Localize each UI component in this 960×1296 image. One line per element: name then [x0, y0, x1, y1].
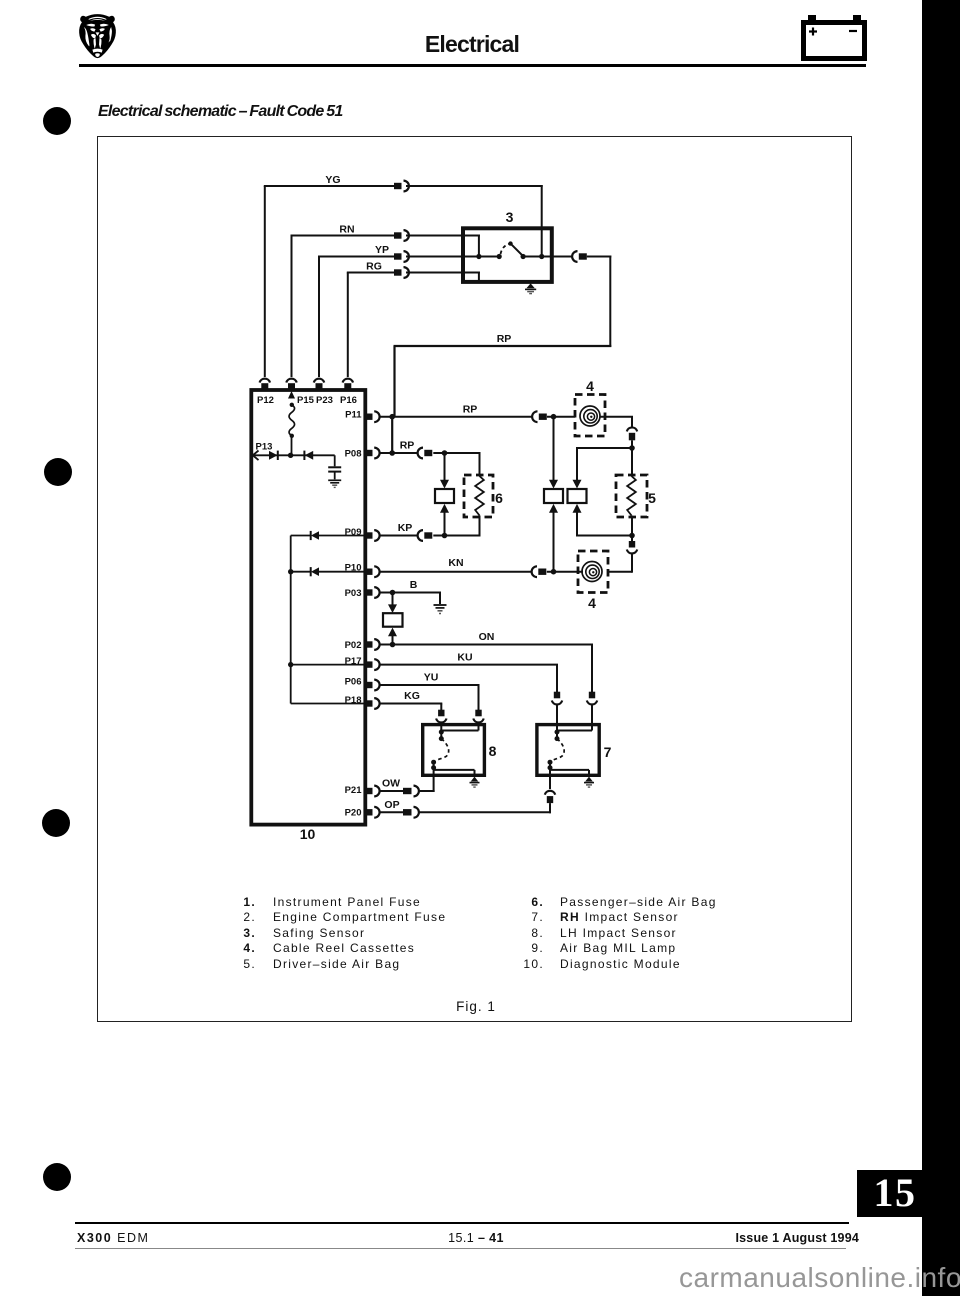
ground under sensor 7	[584, 777, 594, 788]
pin P16 top	[343, 379, 353, 390]
svg-text:P02: P02	[345, 640, 362, 651]
wire to node	[631, 440, 633, 449]
driver airbag squib A arrow	[549, 480, 558, 489]
node passenger top	[442, 450, 448, 456]
wire P17 KU row	[380, 664, 558, 666]
cable reel cassette 4 upper	[575, 395, 605, 437]
safing sensor box 3	[463, 228, 552, 282]
svg-text:P20: P20	[345, 808, 362, 819]
ground drop B	[439, 593, 441, 605]
diode D4 on P10 line	[311, 567, 319, 576]
svg-text:P06: P06	[345, 677, 362, 688]
RH impact sensor 7	[537, 725, 599, 776]
wire ON connector to sensor 7	[591, 705, 593, 725]
resistor R6 feed	[479, 453, 481, 478]
driver airbag squib A	[544, 489, 563, 503]
wire RG vertical to P16	[347, 273, 349, 378]
wire into cassette 4 lower	[603, 571, 632, 573]
wire P18 KG row	[380, 703, 443, 705]
pin P23 top	[314, 379, 324, 390]
diode D1	[269, 451, 278, 460]
wire OP to sensor 7	[419, 811, 551, 813]
wire YP horizontal	[318, 256, 394, 258]
resistor R6 lower wire	[479, 516, 481, 537]
connector below sensor 7	[545, 791, 555, 803]
margin bullet 4	[43, 1163, 71, 1191]
resistor R6	[464, 475, 493, 517]
wire connector to OP row	[549, 803, 551, 813]
sensor 7 bottom lead	[549, 775, 551, 789]
svg-text:KG: KG	[404, 690, 420, 702]
ground B	[434, 605, 447, 614]
connector on YP wire	[394, 251, 409, 262]
svg-text:OP: OP	[384, 799, 399, 811]
svg-text:YG: YG	[325, 174, 340, 186]
wire RP top horizontal	[394, 345, 612, 347]
KU drop to sensor 7	[556, 665, 558, 692]
connector on P11 wire	[532, 411, 547, 422]
node P02	[390, 642, 396, 648]
arrow up under P15	[288, 391, 295, 399]
wire to RP corner	[587, 256, 612, 258]
node P03	[390, 590, 396, 596]
wire KU connector to sensor 7	[556, 705, 558, 725]
MIL lamp arrow down	[388, 604, 397, 613]
margin bullet 2	[44, 458, 72, 486]
section heading	[98, 103, 343, 121]
figure frame	[97, 136, 852, 1022]
connector on RG wire	[394, 267, 409, 278]
pin P11	[366, 411, 380, 422]
svg-text:ON: ON	[479, 631, 495, 643]
legend	[0, 0, 960, 1]
footer rule	[75, 1222, 849, 1224]
vertical connector below node	[627, 541, 637, 553]
svg-text:P11: P11	[345, 410, 362, 421]
connector on OW wire	[403, 786, 419, 797]
svg-text:5: 5	[648, 490, 656, 506]
diagnostic module box 10	[251, 390, 365, 825]
pin P21	[366, 786, 380, 797]
wire RG horizontal	[347, 272, 394, 274]
resistor R5	[616, 475, 647, 517]
wire KP to node	[433, 535, 444, 537]
pin P10	[366, 566, 380, 577]
node before cassette	[551, 414, 557, 420]
diode D2	[304, 451, 313, 460]
svg-text:P09: P09	[345, 527, 362, 538]
watermark	[679, 1262, 960, 1294]
connector on KP wire	[418, 530, 433, 541]
svg-text:P23: P23	[316, 395, 333, 406]
sensor 8 internals	[431, 725, 478, 776]
svg-text:RN: RN	[339, 224, 354, 236]
RP link vertical	[391, 417, 393, 453]
header rule	[79, 64, 866, 67]
svg-text:P08: P08	[345, 449, 362, 460]
ground under box 3	[525, 283, 536, 293]
wire RN horizontal	[291, 235, 395, 237]
connector above sensor 8 left	[436, 710, 446, 723]
margin bullet 3	[42, 809, 70, 837]
MIL lamp arrow up	[388, 628, 397, 637]
svg-text:KU: KU	[457, 651, 472, 663]
pin P03	[366, 587, 380, 598]
svg-text:P18: P18	[345, 695, 362, 706]
connector on P08 wire	[418, 448, 433, 459]
node KN	[551, 569, 557, 575]
svg-text:4: 4	[588, 595, 596, 611]
svg-text:4: 4	[586, 378, 594, 394]
wire YG horizontal	[264, 185, 394, 187]
passenger airbag squib	[435, 489, 454, 503]
driver airbag squib B	[568, 489, 587, 503]
pin P06	[366, 680, 380, 691]
svg-text:KP: KP	[398, 522, 413, 534]
squib B lower wire	[576, 513, 578, 537]
wire down to cassette level	[631, 536, 633, 542]
svg-text:YU: YU	[424, 672, 439, 684]
wire RP right vertical	[609, 256, 611, 348]
svg-text:P03: P03	[345, 588, 362, 599]
pin P02	[366, 639, 380, 650]
svg-text:P17: P17	[345, 656, 362, 667]
switch blade	[511, 244, 523, 256]
squib branch drops	[576, 448, 578, 480]
node right airbag top	[629, 445, 635, 451]
coil inside module	[289, 403, 295, 456]
svg-text:YP: YP	[375, 244, 389, 256]
pin P17	[366, 659, 380, 670]
sensor 8 bottom lead	[433, 775, 435, 792]
pin P18	[366, 698, 380, 709]
wire RN jog inside box 3	[478, 235, 480, 257]
pin P20	[366, 807, 380, 818]
figure caption	[400, 999, 552, 1014]
wire P02 ON row	[380, 644, 593, 646]
pin P08	[366, 448, 380, 459]
capacitor C1	[328, 455, 341, 479]
wire P21 OW row	[380, 790, 404, 792]
wire P10 KN row	[380, 571, 531, 573]
diode D3 on P09 line	[311, 531, 319, 540]
bottom link driver airbag	[577, 535, 632, 537]
P13 internal rail	[251, 454, 334, 456]
jaguar growler logo	[78, 14, 117, 59]
connector above sensor 8 right	[473, 710, 483, 723]
corner drop to connector	[631, 417, 633, 427]
svg-text:RP: RP	[400, 440, 415, 452]
footer thin rule	[75, 1248, 846, 1249]
svg-text:B: B	[410, 579, 418, 591]
margin bullet 1	[43, 107, 71, 135]
ON drop to sensor 7	[591, 645, 593, 693]
wire to passenger squib	[433, 452, 480, 454]
svg-text:RP: RP	[497, 333, 512, 345]
driver airbag squib A arrow up	[549, 504, 558, 513]
svg-text:KN: KN	[448, 557, 463, 569]
wire P06 YU row	[380, 684, 480, 686]
svg-text:P16: P16	[340, 395, 357, 406]
battery icon	[796, 10, 872, 66]
wire YG drop into safing sensor	[541, 185, 543, 257]
right side black strip	[922, 0, 960, 1296]
svg-text:RG: RG	[366, 261, 382, 273]
driver airbag squib B arrow	[573, 480, 582, 489]
KG drop to sensor 8	[440, 704, 442, 711]
wire cassette to corner	[600, 416, 633, 418]
pin P12 top	[260, 379, 270, 390]
node at P10 rail	[288, 569, 293, 574]
passenger airbag squib arrow	[440, 480, 449, 489]
svg-text:P21: P21	[345, 785, 363, 796]
vertical connector below corner	[627, 427, 637, 440]
wire P20 OP row	[380, 811, 404, 813]
svg-text:3: 3	[506, 209, 514, 225]
wire P03 B row	[380, 592, 441, 594]
air bag MIL lamp 9	[383, 613, 403, 627]
svg-text:6: 6	[495, 490, 503, 506]
connector on KN wire	[532, 566, 547, 577]
passenger airbag squib arrow up	[440, 504, 449, 513]
pin P15 top	[286, 379, 296, 390]
ground under sensor 8	[470, 777, 480, 788]
connector right of box 3	[572, 251, 587, 262]
wire RN vertical to P15	[291, 236, 293, 378]
ground under capacitor	[328, 480, 341, 487]
footer right	[650, 1231, 859, 1245]
resistor R5 feed	[631, 447, 633, 478]
resistor R5 lower wire	[631, 516, 633, 537]
switch contacts in box 3	[476, 241, 544, 259]
passenger squib lower wire	[444, 513, 446, 537]
YU drop to sensor 8	[478, 685, 480, 710]
squib A lower wire	[553, 513, 555, 572]
LH impact sensor 8	[423, 725, 485, 776]
svg-text:OW: OW	[382, 778, 400, 790]
wire P11 RP row	[380, 416, 532, 418]
wire across to squib branch	[576, 447, 632, 449]
wire P08 RP row	[380, 452, 417, 454]
wire YP vertical to P23	[318, 257, 320, 378]
module internal bus	[291, 536, 366, 704]
passenger squib feed	[444, 453, 446, 480]
driver airbag squib B arrow up	[573, 504, 582, 513]
MIL lamp lower wire	[392, 636, 394, 645]
connector on RN wire	[394, 230, 409, 241]
svg-text:10: 10	[300, 826, 316, 842]
bottom link passenger airbag	[445, 535, 481, 537]
wire from box 3 to connector	[552, 256, 572, 258]
node driver airbag bottom	[629, 533, 635, 539]
wire OW to sensor 8	[419, 790, 435, 792]
svg-text:P12: P12	[257, 395, 274, 406]
connector on OP wire	[403, 807, 419, 818]
connector on YG wire	[394, 181, 409, 192]
footer center	[380, 1231, 572, 1245]
node at P17 rail	[288, 662, 293, 667]
svg-text:P15: P15	[297, 395, 315, 406]
svg-text:P10: P10	[345, 563, 362, 574]
arrowhead at left edge	[253, 451, 259, 461]
cable reel cassette 4 lower	[578, 551, 608, 593]
wire KN to cassette	[547, 571, 583, 573]
header title	[0, 31, 944, 58]
node P11/RP	[389, 414, 395, 420]
chapter tab 15	[857, 1170, 923, 1217]
svg-text:RP: RP	[463, 404, 478, 416]
pin P09	[366, 530, 380, 541]
switch blade dashed arc	[501, 244, 511, 254]
svg-text:8: 8	[489, 743, 497, 759]
svg-text:7: 7	[604, 744, 612, 760]
wire RP drop to P11	[393, 346, 395, 417]
connector above sensor 7 right	[587, 692, 597, 705]
switch fixed wire in box 3	[479, 256, 499, 258]
connector above sensor 7 left	[552, 692, 562, 705]
wire RG drop to box 3 bottom	[478, 272, 480, 282]
node P08/RP	[389, 450, 395, 456]
wire YG vertical to P12	[264, 186, 266, 377]
sensor 7 internals	[548, 725, 593, 776]
wire P09 KP row	[380, 535, 417, 537]
node on P13 rail	[288, 453, 293, 458]
MIL lamp feed	[392, 593, 394, 606]
node passenger bottom	[442, 533, 448, 539]
footer left	[77, 1231, 149, 1245]
wire to cassette	[547, 416, 580, 418]
